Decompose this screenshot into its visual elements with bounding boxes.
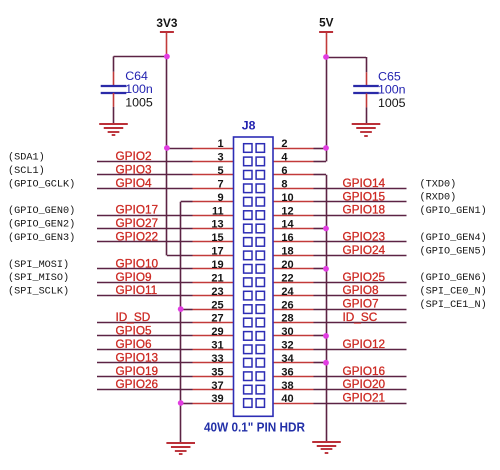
- svg-text:38: 38: [281, 380, 293, 392]
- svg-text:6: 6: [281, 165, 287, 177]
- svg-text:20: 20: [281, 259, 293, 271]
- svg-text:GPIO16: GPIO16: [343, 364, 386, 378]
- svg-text:(SPI_CE0_N): (SPI_CE0_N): [420, 286, 487, 298]
- svg-text:24: 24: [281, 286, 294, 298]
- svg-text:GPIO23: GPIO23: [343, 230, 386, 244]
- svg-text:GPIO17: GPIO17: [116, 203, 159, 217]
- svg-text:GPIO9: GPIO9: [116, 270, 152, 284]
- svg-text:26: 26: [281, 299, 293, 311]
- svg-text:1: 1: [217, 138, 223, 150]
- svg-text:5: 5: [217, 165, 223, 177]
- svg-text:25: 25: [211, 299, 223, 311]
- svg-text:7: 7: [217, 179, 223, 191]
- svg-text:17: 17: [211, 246, 223, 258]
- svg-text:10: 10: [281, 192, 293, 204]
- svg-text:13: 13: [211, 219, 223, 231]
- svg-text:GPIO11: GPIO11: [116, 283, 158, 297]
- svg-text:GPIO27: GPIO27: [116, 216, 159, 230]
- svg-text:(SDA1): (SDA1): [8, 151, 45, 163]
- svg-text:GPIO22: GPIO22: [116, 230, 159, 244]
- svg-text:5V: 5V: [319, 16, 334, 30]
- svg-text:3V3: 3V3: [156, 16, 177, 30]
- svg-text:33: 33: [211, 353, 223, 365]
- svg-text:(GPIO_GEN4): (GPIO_GEN4): [420, 232, 487, 244]
- svg-text:4: 4: [281, 152, 288, 164]
- svg-text:GPIO5: GPIO5: [116, 324, 152, 338]
- svg-text:GPIO15: GPIO15: [343, 189, 386, 203]
- svg-text:GPIO26: GPIO26: [116, 377, 159, 391]
- svg-text:(GPIO_GEN0): (GPIO_GEN0): [8, 205, 75, 217]
- svg-text:(SPI_CE1_N): (SPI_CE1_N): [420, 299, 487, 311]
- svg-text:GPIO13: GPIO13: [116, 350, 159, 364]
- svg-text:ID_SD: ID_SD: [116, 310, 151, 324]
- svg-text:40W 0.1" PIN HDR: 40W 0.1" PIN HDR: [204, 420, 305, 435]
- svg-text:(SPI_MISO): (SPI_MISO): [8, 272, 69, 284]
- svg-text:37: 37: [211, 380, 223, 392]
- svg-text:(GPIO_GEN3): (GPIO_GEN3): [8, 232, 75, 244]
- svg-text:ID_SC: ID_SC: [343, 310, 378, 324]
- svg-text:9: 9: [217, 192, 223, 204]
- svg-text:19: 19: [211, 259, 223, 271]
- svg-text:(SCL1): (SCL1): [8, 165, 45, 177]
- svg-text:(GPIO_GEN1): (GPIO_GEN1): [420, 205, 487, 217]
- svg-text:GPIO14: GPIO14: [343, 176, 386, 190]
- svg-text:11: 11: [212, 205, 224, 217]
- svg-text:GPIO4: GPIO4: [116, 176, 152, 190]
- svg-text:GPIO19: GPIO19: [116, 364, 159, 378]
- svg-text:(GPIO_GCLK): (GPIO_GCLK): [8, 178, 75, 190]
- svg-text:GPIO6: GPIO6: [116, 337, 152, 351]
- svg-text:GPIO8: GPIO8: [343, 283, 379, 297]
- svg-text:C65: C65: [378, 70, 401, 84]
- svg-text:(TXD0): (TXD0): [420, 178, 457, 190]
- svg-text:12: 12: [281, 205, 293, 217]
- svg-text:1005: 1005: [378, 96, 406, 110]
- svg-text:GPIO25: GPIO25: [343, 270, 386, 284]
- svg-text:8: 8: [281, 179, 287, 191]
- svg-text:1005: 1005: [125, 96, 153, 110]
- svg-text:(SPI_SCLK): (SPI_SCLK): [8, 286, 69, 298]
- svg-text:23: 23: [211, 286, 223, 298]
- svg-text:15: 15: [211, 232, 223, 244]
- svg-text:GPIO18: GPIO18: [343, 203, 386, 217]
- svg-text:21: 21: [211, 272, 223, 284]
- svg-text:36: 36: [281, 366, 293, 378]
- svg-text:GPIO21: GPIO21: [343, 391, 386, 405]
- svg-text:(GPIO_GEN5): (GPIO_GEN5): [420, 245, 487, 257]
- svg-text:100n: 100n: [125, 82, 153, 96]
- svg-text:GPIO24: GPIO24: [343, 243, 386, 257]
- svg-text:40: 40: [281, 393, 293, 405]
- svg-text:(RXD0): (RXD0): [420, 192, 457, 204]
- svg-text:J8: J8: [242, 119, 256, 133]
- svg-text:14: 14: [281, 219, 294, 231]
- svg-text:100n: 100n: [378, 83, 406, 97]
- svg-text:16: 16: [281, 232, 293, 244]
- svg-text:22: 22: [281, 272, 293, 284]
- svg-text:2: 2: [281, 138, 287, 150]
- svg-text:GPIO10: GPIO10: [116, 256, 159, 270]
- svg-text:28: 28: [281, 313, 293, 325]
- svg-text:GPIO12: GPIO12: [343, 337, 386, 351]
- svg-text:C64: C64: [125, 69, 148, 83]
- svg-text:GPIO20: GPIO20: [343, 377, 386, 391]
- svg-text:35: 35: [211, 366, 223, 378]
- svg-text:34: 34: [281, 353, 294, 365]
- svg-text:39: 39: [211, 393, 223, 405]
- svg-text:GPIO2: GPIO2: [116, 149, 152, 163]
- svg-text:29: 29: [211, 326, 223, 338]
- svg-text:31: 31: [211, 340, 223, 352]
- svg-text:GPIO3: GPIO3: [116, 162, 152, 176]
- svg-text:30: 30: [281, 326, 293, 338]
- svg-text:18: 18: [281, 246, 293, 258]
- svg-text:27: 27: [211, 313, 223, 325]
- svg-text:(GPIO_GEN6): (GPIO_GEN6): [420, 272, 487, 284]
- svg-text:3: 3: [217, 152, 223, 164]
- svg-text:32: 32: [281, 340, 293, 352]
- svg-text:(GPIO_GEN2): (GPIO_GEN2): [8, 219, 75, 231]
- svg-text:(SPI_MOSI): (SPI_MOSI): [8, 259, 69, 271]
- svg-text:GPIO7: GPIO7: [343, 297, 379, 311]
